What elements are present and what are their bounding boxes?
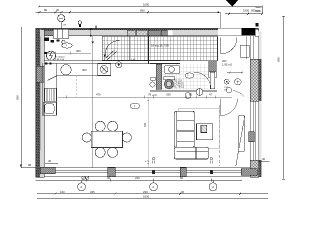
door frame blobs top-left <box>45 38 50 42</box>
axis line through dining <box>92 36 94 168</box>
svg-text:300: 300 <box>82 68 87 72</box>
chimney white boxes in top wall <box>53 29 69 38</box>
kitchen dim line <box>48 52 91 54</box>
svg-text:470: 470 <box>96 93 101 97</box>
svg-text:80: 80 <box>44 8 48 12</box>
bottom mullions <box>108 168 116 177</box>
svg-text:1.46 2.00: 1.46 2.00 <box>55 59 65 61</box>
svg-text:18 stg 16,7/29: 18 stg 16,7/29 <box>151 44 169 48</box>
svg-text:698: 698 <box>16 95 20 100</box>
small white pass in top wall <box>167 30 172 35</box>
svg-text:500: 500 <box>251 9 256 13</box>
svg-text:345: 345 <box>90 190 95 194</box>
svg-text:98: 98 <box>28 163 32 167</box>
svg-text:330: 330 <box>166 93 171 97</box>
svg-text:+0.0: +0.0 <box>152 94 157 97</box>
walking line with arrow <box>105 41 120 57</box>
stove <box>43 102 56 115</box>
junction dots on top wall axis <box>90 28 92 36</box>
left wall <box>40 30 44 177</box>
benchmark circle on stem <box>58 15 96 29</box>
bottom corner blocks <box>40 167 55 173</box>
washbasin <box>165 65 180 74</box>
svg-text:VAL 75/11: VAL 75/11 <box>172 85 185 89</box>
svg-text:40: 40 <box>48 159 52 163</box>
bath door leaf + arc <box>210 72 215 89</box>
label ellipse <box>185 73 193 78</box>
side table <box>197 124 213 140</box>
svg-text:690: 690 <box>140 9 145 13</box>
counters: L shape <box>57 63 111 76</box>
kitchen label ellipse <box>62 43 72 48</box>
right wall window section y36-59 <box>250 36 259 59</box>
right wall hatched parts <box>259 32 262 178</box>
long interior dim line <box>58 96 232 98</box>
nook symbols left <box>150 82 155 87</box>
stair break slash <box>104 50 117 61</box>
svg-text:30: 30 <box>107 176 111 180</box>
svg-text:300: 300 <box>76 49 81 53</box>
svg-text:90: 90 <box>180 176 184 180</box>
electric meter circle <box>46 51 55 60</box>
top wall hatched segments <box>36 28 42 36</box>
grid bubbles <box>78 183 86 191</box>
cooktop box with circle-X <box>98 64 111 75</box>
entry door opening in top wall <box>218 28 241 37</box>
sink <box>61 65 71 75</box>
right wall window/door y104-160 <box>250 101 259 160</box>
fridge hatched <box>45 88 57 101</box>
svg-text:1,95 m2: 1,95 m2 <box>222 63 233 67</box>
svg-text:698: 698 <box>277 57 281 62</box>
interior vertical dim dining/living <box>147 97 149 167</box>
bottom window band <box>44 167 250 176</box>
svg-text:30: 30 <box>181 190 185 194</box>
svg-text:230: 230 <box>143 190 148 194</box>
wall stub right of bath <box>209 61 217 72</box>
living label <box>130 103 140 108</box>
WC <box>164 77 175 80</box>
bath south wall <box>150 90 217 92</box>
svg-text:230: 230 <box>135 176 140 180</box>
svg-text:80: 80 <box>189 93 193 97</box>
svg-text:1500: 1500 <box>243 9 250 13</box>
bath floor tile grid <box>162 64 208 91</box>
svg-text:47: 47 <box>209 93 213 97</box>
svg-text:1600: 1600 <box>143 195 150 199</box>
black wall section top right <box>242 28 256 35</box>
left wall denser piers <box>36 66 44 82</box>
top wall band <box>36 30 259 36</box>
north triangle <box>226 0 239 7</box>
svg-text:120: 120 <box>60 190 65 194</box>
svg-text:346: 346 <box>144 122 147 127</box>
stair/bath divider wall <box>148 36 150 64</box>
ceiling lamp symbol at counter end <box>116 62 122 68</box>
svg-text:40: 40 <box>262 157 266 161</box>
small 40 dims near corners <box>45 161 270 163</box>
svg-text:30: 30 <box>56 8 60 12</box>
zone boundary double line <box>45 60 181 63</box>
floor drain circles <box>196 89 203 96</box>
svg-text:1000: 1000 <box>143 3 150 7</box>
